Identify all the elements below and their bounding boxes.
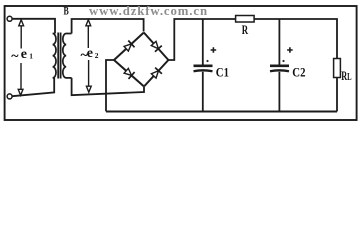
svg-text:www.dzkfw.com.cn: www.dzkfw.com.cn xyxy=(89,4,208,18)
svg-text:C1: C1 xyxy=(216,66,229,80)
diode D2 (top to right arm) xyxy=(144,33,169,61)
polarity + of C1 xyxy=(211,47,217,53)
wire rail from R to RL xyxy=(254,19,337,59)
svg-text:B: B xyxy=(64,5,70,18)
wire bridge right vertex to positive rail xyxy=(168,19,235,60)
capacitor C2 xyxy=(270,66,289,71)
polarity + of C2 xyxy=(287,47,293,53)
wire top-left to primary xyxy=(12,19,55,34)
transformer core xyxy=(57,33,59,79)
source arrow e2 xyxy=(86,20,91,92)
svg-text:C2: C2 xyxy=(292,66,305,80)
svg-text:RL: RL xyxy=(341,69,351,83)
wire bottom rail xyxy=(106,111,337,113)
terminal input bottom xyxy=(7,94,12,99)
transformer B secondary winding xyxy=(63,34,72,78)
diode D1 (left to top arm) xyxy=(114,33,144,61)
wire secondary top to bridge top xyxy=(72,19,144,34)
wire C2 bottom lead xyxy=(278,72,280,112)
source arrow e1 xyxy=(18,20,23,96)
svg-text:R: R xyxy=(242,24,249,38)
wire RL bottom lead xyxy=(336,78,338,112)
transformer B primary winding xyxy=(53,34,56,78)
wire C2 top lead xyxy=(278,19,280,65)
wire bottom-left to primary xyxy=(12,78,54,96)
wire bridge left vertex to negative rail xyxy=(106,60,114,111)
resistor R xyxy=(236,16,255,23)
wire C1 bottom lead xyxy=(202,72,204,112)
terminal input top xyxy=(7,16,12,21)
capacitor C1 xyxy=(194,66,213,71)
diode D3 (left to bottom arm) xyxy=(114,60,144,87)
resistor RL xyxy=(334,59,341,78)
wire C1 top lead xyxy=(202,19,204,65)
diode D4 (bottom to right arm) xyxy=(144,60,168,87)
wire secondary bottom to bridge bottom xyxy=(72,78,144,95)
